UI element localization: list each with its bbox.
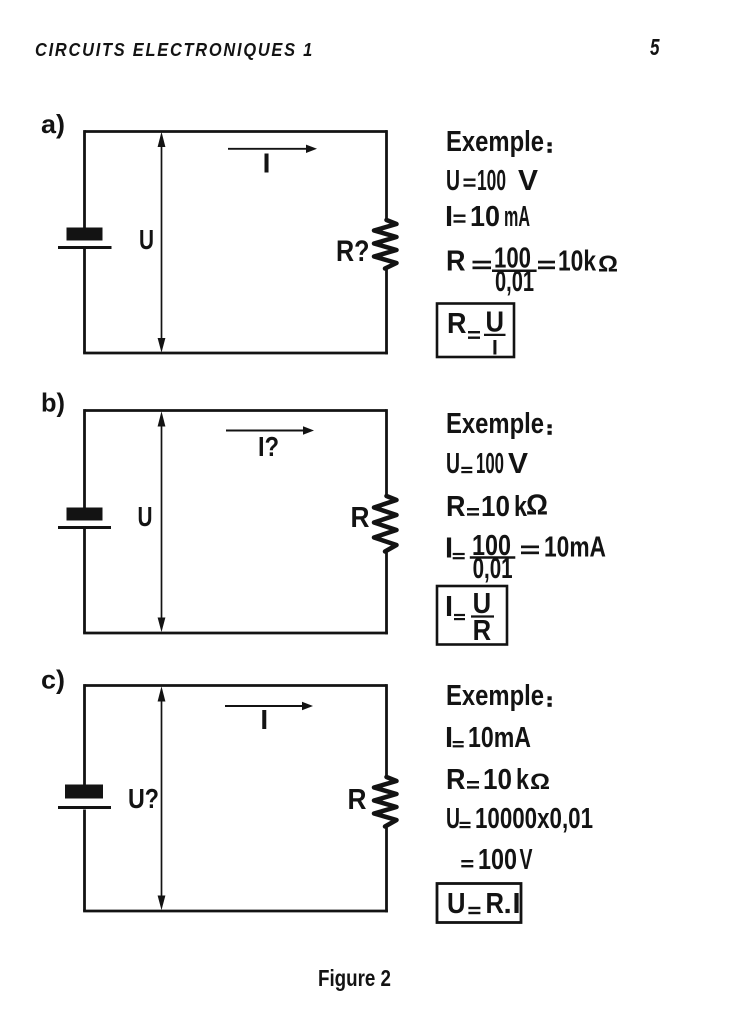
svg-text:U: U	[446, 448, 460, 480]
svg-text:R: R	[447, 308, 467, 340]
svg-text:10: 10	[483, 764, 512, 796]
wire top a	[85, 130, 388, 133]
svg-text:Ω: Ω	[526, 490, 548, 522]
battery B3 thin plate	[58, 806, 111, 809]
svg-text:Exemple: Exemple	[446, 126, 544, 158]
svg-text:I: I	[513, 888, 521, 920]
voltage arrow U head top a	[158, 132, 166, 147]
svg-text:V: V	[508, 448, 529, 480]
svg-text:I: I	[445, 722, 453, 754]
wire right lower a	[385, 269, 388, 355]
text =100 V c	[461, 860, 473, 862]
svg-text:b): b)	[41, 388, 65, 418]
svg-text:5: 5	[650, 34, 660, 60]
wire right lower c	[385, 827, 388, 913]
battery B1 thick plate	[67, 228, 103, 241]
svg-text:a): a)	[41, 109, 65, 139]
resistor R zigzag b	[374, 496, 397, 552]
svg-text:10000x0,01: 10000x0,01	[475, 803, 593, 835]
voltage arrow U line c	[161, 694, 163, 902]
wire top c	[85, 684, 387, 687]
formula box a R=U/I	[437, 304, 514, 358]
svg-text:Ω: Ω	[598, 251, 618, 277]
svg-text:I: I	[445, 533, 453, 565]
current arrow I? line b	[226, 430, 305, 432]
svg-text:10mA: 10mA	[544, 531, 606, 563]
battery B2 thick plate	[67, 508, 103, 521]
svg-text:U: U	[139, 224, 154, 255]
voltage arrow U head bottom a	[158, 338, 166, 353]
svg-text:10mA: 10mA	[468, 722, 531, 754]
svg-text:k: k	[516, 764, 530, 796]
resistor R? zigzag a	[374, 220, 397, 269]
wire left upper b	[83, 409, 86, 507]
svg-text:V: V	[518, 165, 539, 197]
svg-text:100: 100	[476, 448, 504, 480]
wire right upper a	[385, 130, 388, 221]
wire bottom b	[83, 632, 388, 635]
svg-text:U?: U?	[128, 783, 159, 814]
svg-text:U: U	[447, 888, 466, 920]
svg-text:R?: R?	[336, 235, 370, 268]
voltage arrow U line b	[161, 419, 163, 624]
voltage arrow U line a	[161, 140, 163, 344]
current arrow I? head b	[303, 426, 314, 434]
svg-text:U: U	[486, 307, 505, 339]
wire left lower b	[83, 529, 86, 633]
wire left lower c	[83, 810, 86, 912]
wire left upper a	[83, 130, 86, 227]
wire top b	[85, 409, 387, 412]
svg-text:I: I	[445, 591, 453, 623]
voltage arrow U head bottom b	[158, 618, 166, 633]
svg-text:mA: mA	[504, 201, 530, 233]
wire right upper c	[385, 684, 388, 777]
wire left lower a	[83, 249, 86, 353]
svg-text:U: U	[446, 165, 460, 197]
svg-text:R: R	[348, 784, 367, 816]
formula box c U=R.I	[437, 884, 521, 923]
svg-text:Ω: Ω	[530, 769, 550, 794]
svg-text:I: I	[445, 201, 453, 233]
svg-text:0,01: 0,01	[473, 553, 513, 585]
svg-text:R: R	[446, 764, 466, 796]
battery B3 thick plate	[65, 785, 103, 799]
voltage arrow U head bottom c	[158, 896, 166, 911]
svg-text:10: 10	[481, 491, 510, 523]
voltage arrow U head top c	[158, 686, 166, 701]
svg-text:U: U	[446, 803, 460, 835]
svg-text:c): c)	[41, 665, 65, 695]
svg-text:R: R	[446, 246, 466, 278]
svg-text:100: 100	[477, 165, 506, 197]
svg-text:CIRCUITS ELECTRONIQUES 1: CIRCUITS ELECTRONIQUES 1	[35, 39, 314, 60]
svg-text:I: I	[260, 704, 268, 735]
wire right upper b	[385, 409, 388, 496]
battery B1 thin plate	[58, 246, 112, 249]
resistor R zigzag c	[374, 777, 397, 827]
svg-text:Figure 2: Figure 2	[318, 965, 391, 991]
svg-text:I?: I?	[258, 431, 279, 462]
svg-text:U: U	[138, 501, 153, 532]
svg-text:Exemple: Exemple	[446, 680, 544, 712]
wire right lower b	[385, 552, 388, 635]
voltage arrow U head top b	[158, 411, 166, 426]
svg-text:100: 100	[478, 844, 517, 876]
svg-text:10: 10	[470, 201, 500, 233]
wire bottom a	[83, 352, 388, 355]
current arrow I head a	[306, 145, 317, 153]
formula box b I=U/R	[437, 586, 507, 645]
svg-text:10k: 10k	[558, 246, 597, 278]
svg-text:R: R	[486, 888, 505, 920]
svg-text:R: R	[446, 491, 466, 523]
wire left upper c	[83, 684, 86, 784]
wire bottom c	[83, 910, 388, 913]
current arrow I line c	[225, 705, 304, 707]
svg-text:I: I	[263, 148, 271, 179]
current arrow I head c	[302, 702, 313, 710]
svg-text:Exemple: Exemple	[446, 408, 544, 440]
battery B2 thin plate	[58, 526, 111, 529]
svg-text:I: I	[492, 337, 498, 360]
current arrow I line a	[228, 148, 308, 150]
svg-text:0,01: 0,01	[495, 266, 534, 298]
svg-text:R: R	[473, 615, 492, 647]
svg-text:R: R	[351, 502, 370, 534]
svg-text:V: V	[520, 844, 533, 876]
